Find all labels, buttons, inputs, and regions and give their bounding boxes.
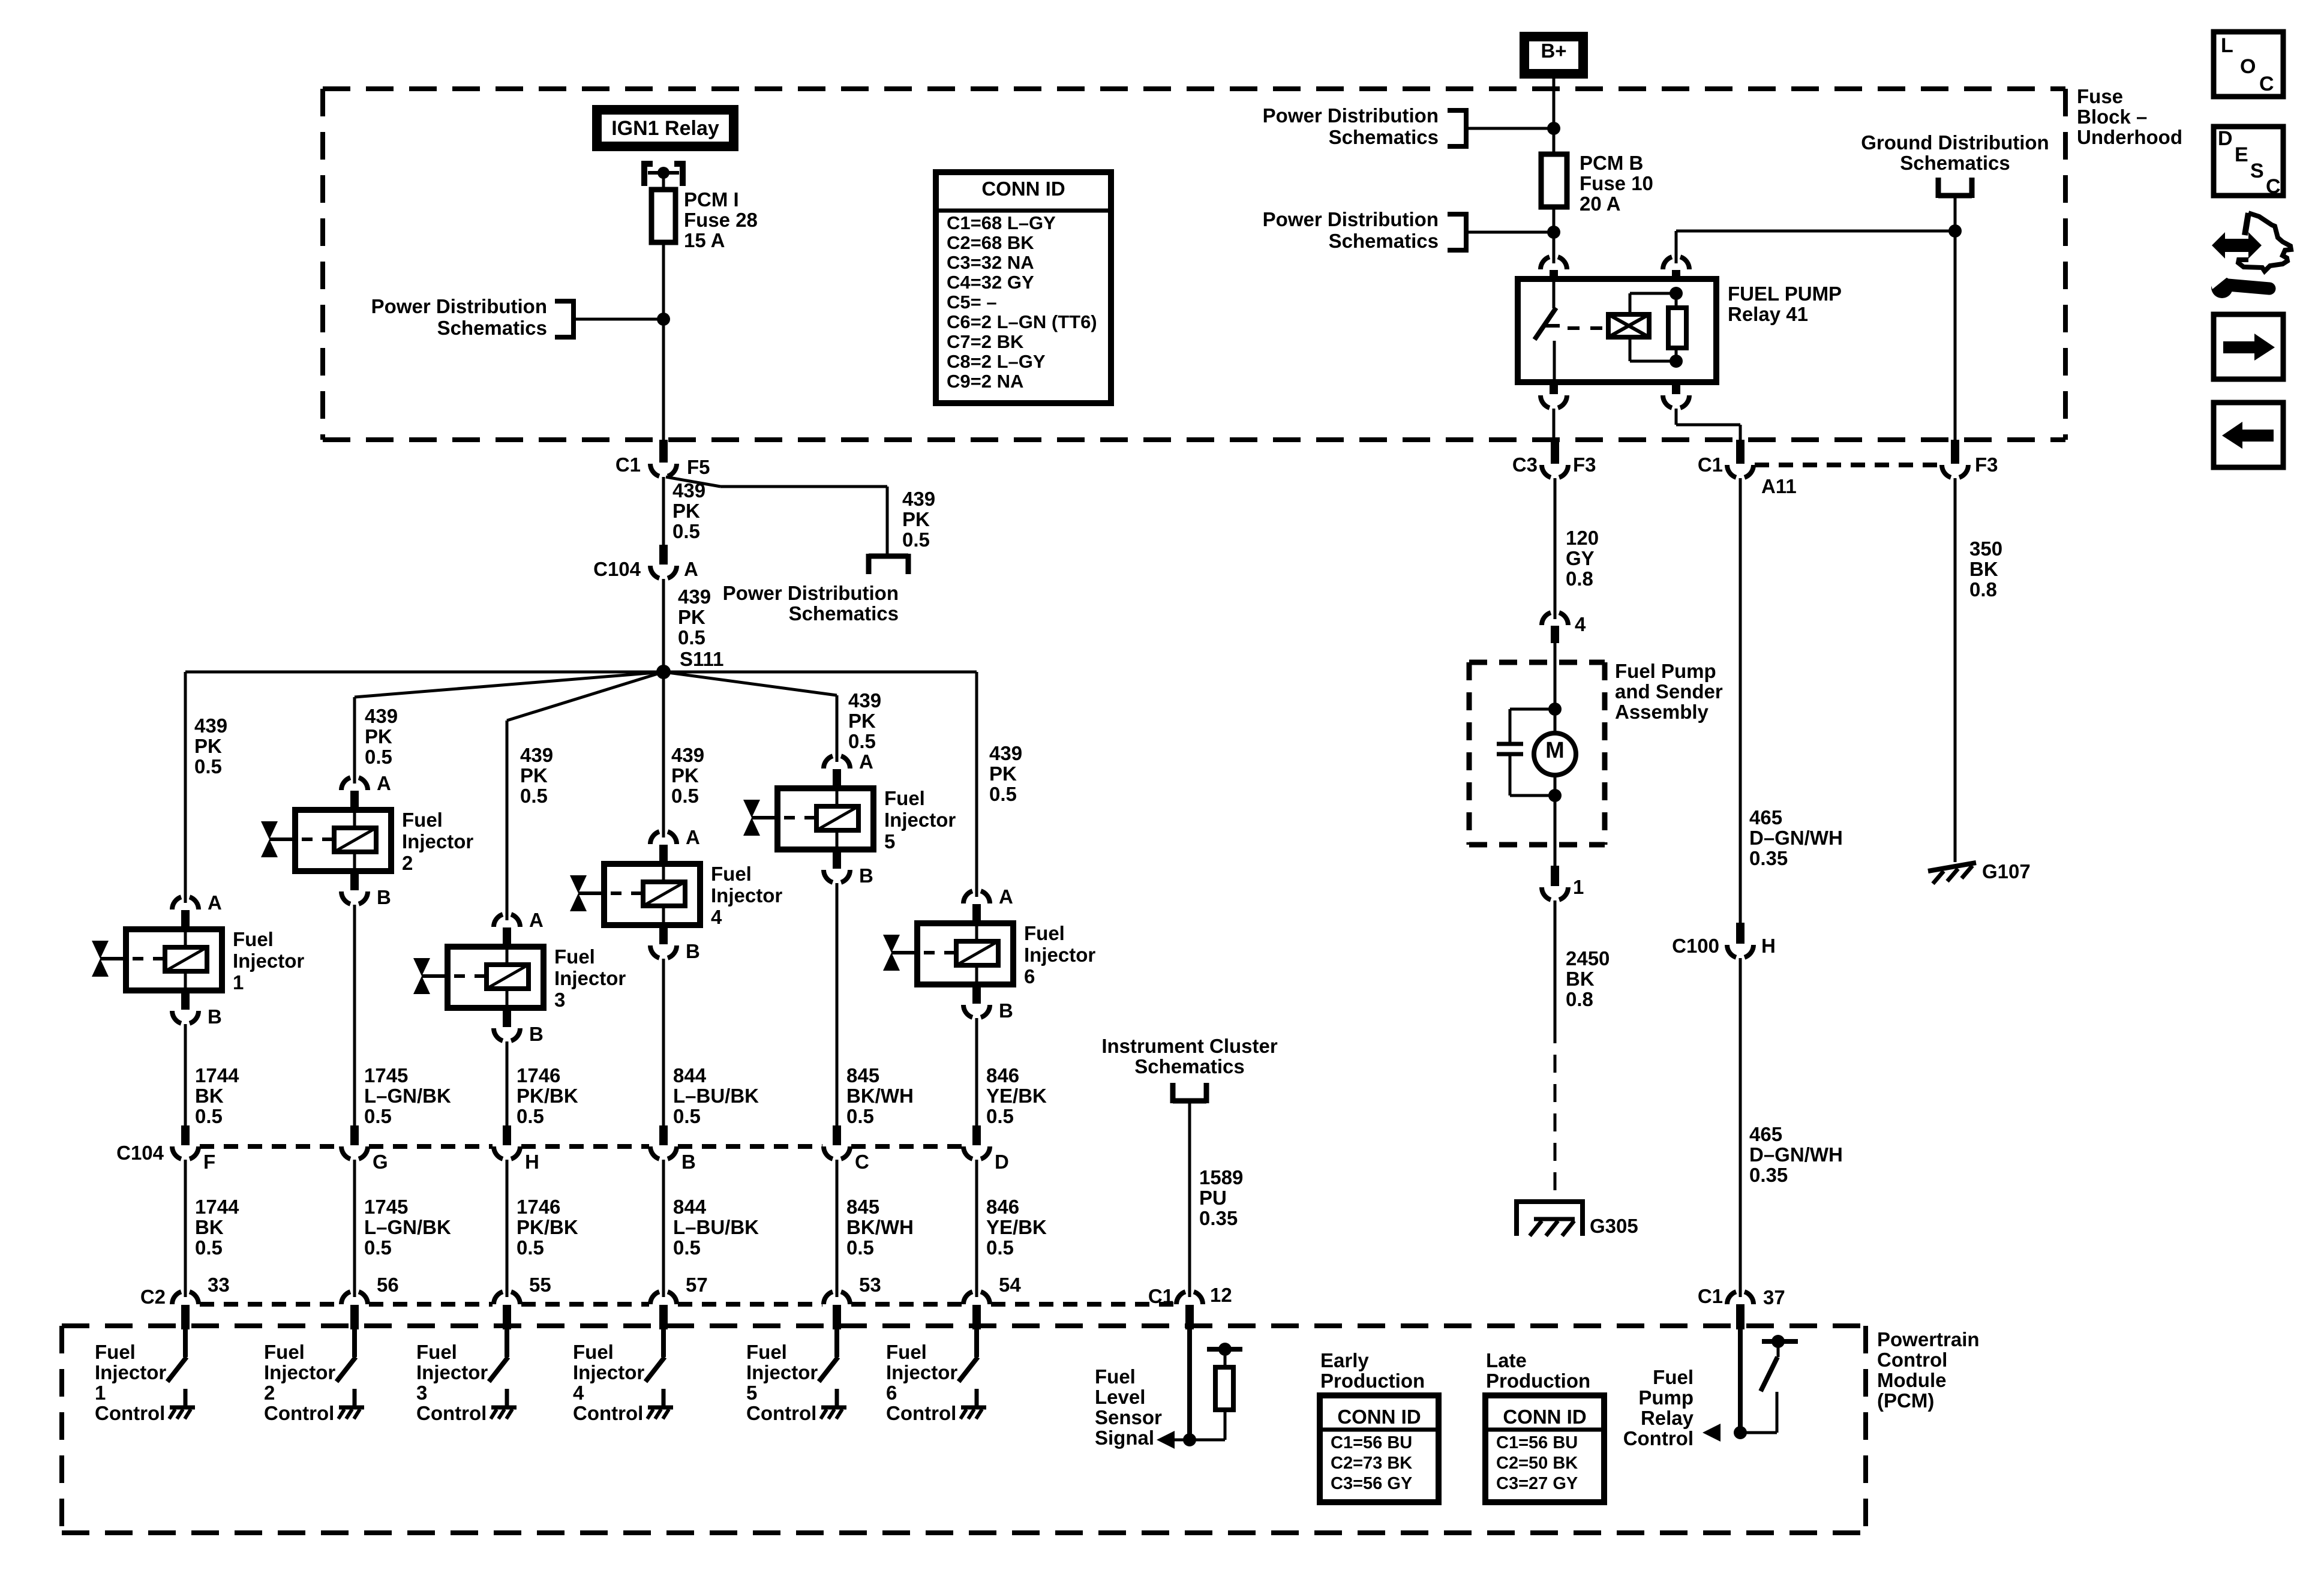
svg-text:PK: PK [672,500,700,522]
instrument cluster schematics label [1101,1035,1278,1077]
svg-text:0.5: 0.5 [846,1105,874,1127]
svg-text:Control: Control [416,1402,487,1424]
diagnostic icon part outline [2238,213,2291,271]
svg-text:1746: 1746 [517,1196,560,1218]
svg-text:B: B [686,940,700,962]
pump capacitor branch [1497,709,1555,795]
svg-text:0.8: 0.8 [1566,988,1593,1010]
ground G107 [1928,860,2031,884]
wire label 1745 upper [364,1064,451,1127]
svg-text:0.5: 0.5 [517,1236,544,1259]
svg-text:Injector: Injector [746,1361,818,1383]
svg-text:C1: C1 [615,454,641,476]
svg-text:6: 6 [1024,965,1035,987]
svg-text:C: C [2266,175,2281,198]
svg-text:PK: PK [989,763,1017,785]
svg-text:Injector: Injector [416,1361,488,1383]
relay coil terminal top connector [1663,231,1689,280]
svg-text:350: 350 [1969,538,2002,560]
svg-text:F3: F3 [1975,454,1998,476]
svg-text:C8=2 L–GY: C8=2 L–GY [947,351,1046,372]
svg-text:Fuel: Fuel [416,1341,457,1363]
svg-text:Injector: Injector [573,1361,644,1383]
svg-text:2: 2 [264,1382,275,1404]
power distribution schematics label mid [723,582,899,625]
svg-text:465: 465 [1749,806,1782,828]
fuse PCM I Fuse 28 15A [651,188,758,251]
svg-text:Late: Late [1486,1349,1527,1371]
wire C104 C down [836,1160,839,1297]
svg-text:Fuse 10: Fuse 10 [1580,172,1653,194]
wire fuse10 down [1553,207,1556,263]
wire label 439 PK injector 2 [365,705,398,768]
svg-text:439: 439 [902,488,935,510]
svg-text:L: L [2221,34,2233,57]
svg-text:C2=50 BK: C2=50 BK [1496,1454,1578,1473]
fuel pump relay control switch [1740,1335,1798,1433]
fuel pump relay control wire [1738,1329,1743,1433]
svg-text:Injector: Injector [95,1361,166,1383]
svg-text:Control: Control [573,1402,643,1424]
connector C1 pin 37 [1698,1285,1785,1329]
connector C104 pin F [172,1125,215,1173]
svg-text:C2: C2 [140,1286,166,1308]
svg-text:B: B [681,1151,696,1173]
S111 right feed [663,672,977,897]
svg-text:Schematics: Schematics [1134,1055,1244,1077]
svg-text:Control: Control [95,1402,165,1424]
svg-text:C1: C1 [1148,1285,1173,1307]
svg-text:57: 57 [686,1274,708,1296]
svg-text:Fuel: Fuel [884,787,925,809]
connector C2 pin 54 [963,1274,1021,1329]
wire 439 PK to S111 [663,579,723,670]
DESC icon [2214,127,2283,198]
svg-text:B: B [208,1005,222,1028]
svg-text:PK: PK [194,735,222,757]
svg-text:Schematics: Schematics [1329,230,1439,252]
svg-text:Power Distribution: Power Distribution [723,582,899,604]
svg-text:PK: PK [848,710,876,732]
svg-text:0.35: 0.35 [1749,847,1788,869]
svg-text:Fuse 28: Fuse 28 [684,209,758,231]
svg-text:A: A [208,891,222,914]
fuel pump relay control arrow [1703,1424,1721,1442]
svg-text:Fuel Pump: Fuel Pump [1615,660,1716,682]
wire 120 GY [1555,478,1599,619]
svg-text:0.5: 0.5 [671,785,699,807]
fuse block underhood dashed box [323,89,2065,440]
svg-text:1: 1 [95,1382,106,1404]
early production label [1320,1349,1425,1392]
svg-text:846: 846 [986,1064,1019,1086]
svg-text:S: S [2250,160,2264,182]
forward arrow icon [2214,314,2283,379]
connector C104 pin C [824,1125,869,1173]
power distribution schematics label right lower [1263,208,1439,252]
wire label 439 PK injector 6 [989,742,1022,805]
svg-text:L–BU/BK: L–BU/BK [673,1085,759,1107]
svg-text:844: 844 [673,1196,707,1218]
svg-text:Power Distribution: Power Distribution [371,295,547,317]
svg-text:Ground Distribution: Ground Distribution [1861,131,2049,154]
svg-text:PU: PU [1199,1187,1227,1209]
svg-text:Fuel: Fuel [264,1341,305,1363]
connector C2 pin 56 [341,1274,399,1329]
ground distribution schematics label [1861,131,2049,174]
wire fuse28 down to C1/F5 [662,242,665,440]
wire C104 D down [975,1160,978,1297]
CONN ID table top [936,172,1111,403]
svg-text:844: 844 [673,1064,707,1086]
wire label 1746 lower [517,1196,578,1259]
svg-text:A: A [684,558,698,580]
svg-text:C4=32 GY: C4=32 GY [947,272,1034,293]
relay switch [1535,279,1560,382]
svg-text:A: A [859,751,873,773]
svg-text:0.5: 0.5 [678,626,705,649]
svg-text:0.5: 0.5 [989,783,1017,805]
svg-text:Fuel: Fuel [573,1341,614,1363]
svg-text:Power Distribution: Power Distribution [1263,208,1439,230]
power distribution schematics label left [371,295,547,339]
svg-text:C1=56 BU: C1=56 BU [1496,1433,1578,1452]
injector 3 control label [416,1341,488,1424]
connector C104 pin G [341,1125,388,1173]
svg-text:Schematics: Schematics [1329,126,1439,148]
relay bottom left terminal [1541,382,1567,440]
svg-text:G: G [373,1151,388,1173]
svg-text:1744: 1744 [195,1196,239,1218]
svg-text:H: H [525,1151,539,1173]
junction dot on fuse28 wire [657,313,670,326]
wire label 844 upper [673,1064,759,1127]
svg-text:0.5: 0.5 [848,730,876,752]
svg-text:B: B [529,1023,544,1045]
relay terminal 30 connector [1541,257,1567,280]
svg-text:1: 1 [1573,876,1584,898]
wire label 439 PK injector 1 [194,715,227,778]
splice S111 [656,665,671,679]
svg-text:Underhood: Underhood [2077,126,2182,148]
wire 350 BK to G107 [1955,478,2002,862]
svg-text:Schematics: Schematics [789,602,899,625]
LOC icon [2214,32,2283,97]
svg-text:C104: C104 [116,1142,164,1164]
svg-text:PK/BK: PK/BK [517,1085,578,1107]
svg-text:C3=56 GY: C3=56 GY [1331,1474,1412,1493]
fuel pump relay control label [1623,1366,1694,1449]
svg-text:Fuel: Fuel [402,809,443,831]
diagnostic icon wrench [2206,271,2269,298]
svg-text:0.5: 0.5 [986,1105,1014,1127]
svg-text:Control: Control [264,1402,334,1424]
fuel injector 5 [743,751,956,887]
injector 5 control label [746,1341,818,1424]
connector C104 dashed line [200,1144,962,1149]
svg-text:1745: 1745 [364,1196,408,1218]
FUEL PUMP Relay 41 box [1518,279,1716,382]
svg-text:56: 56 [377,1274,399,1296]
svg-text:E: E [2235,143,2248,166]
dashed wire to G305 [1554,1025,1557,1202]
wire into pump [1554,643,1557,709]
S111 to injector 4 [662,672,665,837]
connector C1/A11 [1698,440,1797,497]
svg-text:B+: B+ [1541,40,1566,62]
svg-text:PK: PK [902,508,930,530]
wire label 846 lower [986,1196,1047,1259]
power distribution branch label [902,488,935,551]
svg-text:Powertrain: Powertrain [1877,1328,1980,1350]
svg-text:3: 3 [416,1382,427,1404]
svg-text:PCM I: PCM I [684,188,739,211]
svg-text:B: B [999,999,1013,1022]
injector 4 control label [573,1341,644,1424]
connector C104/A top [593,545,698,580]
svg-text:120: 120 [1566,527,1599,549]
connector C3/F3 [1512,440,1596,478]
wire label 439 PK injector 5 [848,689,881,752]
wire C104 H down [506,1160,509,1297]
svg-text:PK: PK [520,764,548,786]
svg-text:0.5: 0.5 [517,1105,544,1127]
svg-text:4: 4 [1575,613,1586,635]
early production CONN ID table [1320,1395,1439,1502]
svg-text:A: A [686,826,700,848]
svg-text:C104: C104 [593,558,641,580]
wire label 844 lower [673,1196,759,1259]
svg-text:F3: F3 [1573,454,1596,476]
svg-text:BK: BK [195,1085,224,1107]
svg-text:0.5: 0.5 [195,1236,223,1259]
svg-text:6: 6 [886,1382,897,1404]
svg-text:PCM B: PCM B [1580,152,1643,174]
svg-text:Signal: Signal [1095,1427,1154,1449]
late production CONN ID table [1485,1395,1604,1502]
svg-text:PK: PK [678,606,705,628]
svg-text:B: B [377,886,391,908]
pump junction top [1548,703,1562,716]
svg-text:1: 1 [233,971,244,993]
svg-text:Relay: Relay [1641,1407,1694,1429]
svg-text:0.5: 0.5 [673,1105,701,1127]
svg-text:Production: Production [1320,1370,1425,1392]
svg-text:A: A [377,772,391,794]
power distribution schematics label right upper [1263,104,1439,148]
fuse block label [2077,85,2182,148]
svg-text:Control: Control [886,1402,956,1424]
svg-text:A: A [529,909,544,931]
fuel level sensor resistor [1174,1343,1242,1440]
svg-text:F: F [203,1151,215,1173]
ground G305 [1514,1202,1638,1237]
svg-text:BK/WH: BK/WH [846,1216,914,1238]
injector 3 control switch [489,1329,517,1419]
svg-text:20 A: 20 A [1580,193,1620,215]
wire label 1744 upper [195,1064,239,1127]
wire label 1744 lower [195,1196,239,1259]
svg-text:0.5: 0.5 [673,1236,701,1259]
pump junction bottom [1548,789,1562,802]
svg-text:D: D [2218,127,2233,150]
svg-text:L–BU/BK: L–BU/BK [673,1216,759,1238]
svg-text:33: 33 [208,1274,230,1296]
svg-text:C1: C1 [1698,454,1723,476]
svg-text:C6=2 L–GN (TT6): C6=2 L–GN (TT6) [947,311,1097,332]
wire label 1746 upper [517,1064,578,1127]
svg-text:2: 2 [402,852,413,874]
svg-text:M: M [1545,738,1565,763]
relay bottom right terminal [1663,382,1740,440]
fuel level sensor junction [1183,1433,1196,1446]
connector pin 4 [1542,613,1586,643]
svg-text:(PCM): (PCM) [1877,1389,1934,1412]
svg-text:Control: Control [746,1402,816,1424]
svg-text:C3: C3 [1512,454,1538,476]
B+ battery feed box [1524,37,1583,74]
relay coil [1608,314,1649,337]
svg-text:BK: BK [1969,558,1998,580]
fuel pump motor M [1534,709,1576,795]
svg-text:C1=68 L–GY: C1=68 L–GY [947,212,1056,233]
svg-text:Fuel: Fuel [1024,922,1065,944]
connector C2 pin 33 [172,1274,230,1329]
svg-text:Pump: Pump [1638,1386,1694,1409]
connector C104 pin H [494,1125,539,1173]
svg-text:Assembly: Assembly [1615,701,1709,723]
S111 to injector 3 [507,672,663,920]
svg-text:C1=56 BU: C1=56 BU [1331,1433,1412,1452]
svg-text:C3=32 NA: C3=32 NA [947,252,1034,273]
svg-text:Fuel: Fuel [233,928,274,950]
svg-text:Injector: Injector [711,884,782,906]
svg-text:0.5: 0.5 [520,785,548,807]
svg-text:L–GN/BK: L–GN/BK [364,1085,451,1107]
power distribution bracket mid [869,554,908,574]
wire injector 2 B to C104 [353,905,356,1127]
C2 label [140,1286,166,1308]
svg-text:5: 5 [746,1382,757,1404]
svg-text:BK: BK [195,1216,224,1238]
svg-text:Fuel: Fuel [886,1341,927,1363]
wire C104 G down [353,1160,356,1297]
connector C1 pin 12 [1148,1284,1232,1329]
connector F3 right [1942,440,1998,478]
svg-text:C2=68 BK: C2=68 BK [947,232,1034,253]
ground distribution bracket [1938,178,1972,231]
svg-text:and Sender: and Sender [1615,680,1723,703]
svg-text:15 A: 15 A [684,229,725,251]
svg-text:3: 3 [554,989,565,1011]
injector 1 control label [95,1341,166,1424]
svg-text:CONN ID: CONN ID [1503,1406,1586,1428]
wire injector 1 B to C104 [184,1024,187,1127]
svg-text:0.5: 0.5 [986,1236,1014,1259]
connector C2 dashed line [200,1302,1175,1307]
svg-text:2450: 2450 [1566,947,1610,969]
svg-text:BK/WH: BK/WH [846,1085,914,1107]
wire 465 lower [1740,958,1843,1297]
svg-text:L–GN/BK: L–GN/BK [364,1216,451,1238]
svg-text:Instrument Cluster: Instrument Cluster [1101,1035,1278,1057]
svg-text:F5: F5 [687,456,710,478]
injector 2 control label [264,1341,335,1424]
relay 41 label [1728,283,1842,325]
svg-text:A: A [999,885,1013,908]
svg-text:Injector: Injector [233,950,304,972]
svg-text:53: 53 [859,1274,881,1296]
fuel level sensor signal label [1095,1365,1162,1449]
svg-text:Injector: Injector [1024,944,1095,966]
fuel injector 3 [413,909,626,1045]
svg-text:PK/BK: PK/BK [517,1216,578,1238]
IGN1 Relay box [597,110,734,146]
S111 to injector 2 [355,672,663,784]
wire injector 6 B to C104 [975,1018,978,1127]
svg-text:Fuel: Fuel [1095,1365,1136,1388]
svg-text:B: B [859,864,873,887]
svg-text:Fuel: Fuel [554,945,595,968]
svg-text:0.5: 0.5 [364,1236,392,1259]
svg-text:A11: A11 [1761,475,1797,497]
svg-text:PK: PK [671,764,699,786]
svg-text:YE/BK: YE/BK [986,1216,1047,1238]
svg-text:Control: Control [1877,1349,1947,1371]
wire label 846 upper [986,1064,1047,1127]
svg-text:PK: PK [365,725,392,748]
fuel level sensor signal arrow [1157,1431,1175,1449]
svg-text:O: O [2240,55,2256,78]
late production label [1486,1349,1590,1392]
svg-text:G305: G305 [1590,1215,1638,1237]
fuel level sensor wire [1187,1329,1192,1440]
wire 439 PK below C1/F5 [663,477,705,545]
svg-text:0.5: 0.5 [195,1105,223,1127]
fuse PCM B Fuse 10 20A [1541,152,1653,215]
injector 6 control label [886,1341,957,1424]
svg-text:Schematics: Schematics [437,317,547,339]
S111 to injector 5 [663,672,837,762]
connector C2 pin 55 [494,1274,551,1329]
svg-text:1589: 1589 [1199,1166,1243,1188]
svg-text:0.35: 0.35 [1199,1207,1238,1229]
svg-text:0.8: 0.8 [1566,568,1593,590]
injector 4 control switch [645,1329,673,1419]
svg-text:Production: Production [1486,1370,1590,1392]
diagnostic icon double arrow [2212,232,2262,259]
svg-text:0.8: 0.8 [1969,578,1997,601]
connector C104 pin D [963,1125,1009,1173]
svg-text:Level: Level [1095,1386,1145,1408]
back arrow icon [2214,403,2283,467]
PCM label [1877,1328,1980,1412]
svg-text:1746: 1746 [517,1064,560,1086]
svg-text:C7=2 BK: C7=2 BK [947,331,1024,352]
wire 465 upper [1740,478,1843,923]
svg-text:439: 439 [678,586,711,608]
wire injector 3 B to C104 [506,1041,509,1127]
svg-text:845: 845 [846,1196,879,1218]
relay switch linkage dashes [1568,326,1608,330]
fuel injector 6 [883,885,1095,1022]
svg-text:0.5: 0.5 [194,755,222,778]
wire IGN1 to fuse 28 [662,173,665,190]
wire injector 5 B to C104 [836,883,839,1127]
svg-text:Fuse: Fuse [2077,85,2123,107]
connector C100/H [1672,923,1776,957]
svg-text:H: H [1761,935,1776,957]
